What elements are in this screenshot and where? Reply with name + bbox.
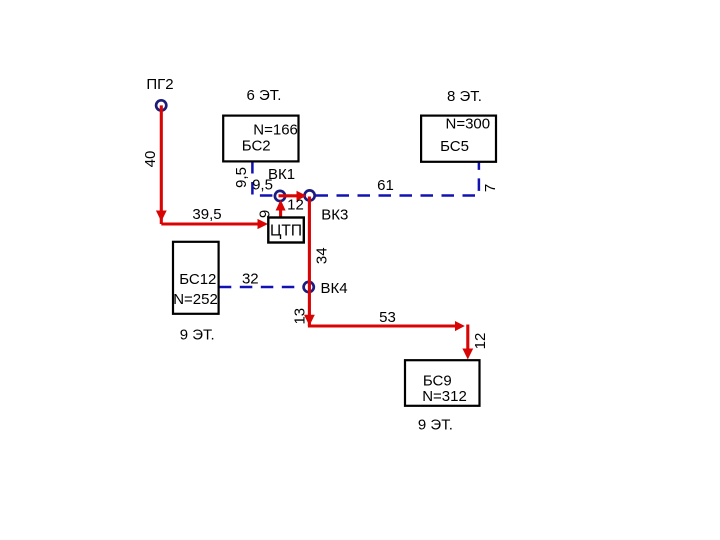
- svg-text:40: 40: [142, 151, 159, 168]
- svg-text:ВК4: ВК4: [320, 280, 347, 297]
- svg-text:39,5: 39,5: [192, 206, 221, 223]
- svg-text:12: 12: [472, 333, 489, 350]
- arrowhead down into БС9: [462, 349, 473, 360]
- svg-text:9,5: 9,5: [233, 167, 250, 188]
- arrowhead right at 53-corner: [455, 321, 465, 331]
- svg-text:N=300: N=300: [445, 116, 490, 133]
- svg-text:БС12: БС12: [179, 271, 216, 288]
- svg-text:6 ЭТ.: 6 ЭТ.: [247, 87, 282, 104]
- svg-text:БС9: БС9: [423, 372, 452, 389]
- svg-text:9 ЭТ.: 9 ЭТ.: [180, 326, 215, 343]
- node ПГ2 (source chamber circle): [156, 100, 166, 110]
- wire: blue return pipe БС12 to ВК4 (dashed): [219, 286, 305, 289]
- svg-text:53: 53: [379, 309, 396, 326]
- svg-text:61: 61: [377, 177, 394, 194]
- arrowhead up at ВК1: [276, 200, 286, 211]
- svg-text:7: 7: [482, 184, 499, 192]
- svg-text:9,5: 9,5: [252, 177, 273, 194]
- arrowhead down at ПГ2 corner: [156, 211, 167, 222]
- wire: red main ВК3 down through ВК4: [308, 197, 311, 327]
- block БС12 (building, N=252): [173, 242, 219, 314]
- svg-text:ПГ2: ПГ2: [146, 76, 173, 93]
- block ЦТП (heat point): [268, 218, 304, 243]
- svg-text:9: 9: [257, 210, 274, 218]
- wire: blue return pipe ВК3 to БС5 (dashed): [316, 161, 479, 196]
- svg-text:ЦТП: ЦТП: [270, 223, 302, 240]
- svg-text:13: 13: [291, 308, 308, 325]
- wire: red main corner to the right (53): [308, 324, 456, 327]
- svg-text:N=166: N=166: [253, 122, 298, 139]
- wire: blue return pipe БС2 to ВК1 (dashed): [252, 161, 273, 196]
- arrowhead right into ВК3: [297, 191, 307, 201]
- svg-text:N=312: N=312: [422, 388, 467, 405]
- wire: red supply main to ЦТП: [161, 222, 258, 225]
- block БС2 (building, N=166): [223, 116, 298, 162]
- svg-text:32: 32: [242, 271, 259, 288]
- svg-text:12: 12: [287, 197, 304, 214]
- svg-text:ВК3: ВК3: [321, 206, 348, 223]
- node ВК4 (chamber circle): [304, 282, 314, 292]
- wire: red pipe ВК1 to ВК3: [279, 194, 297, 197]
- wire: red supply main ПГ2 down: [160, 105, 163, 224]
- svg-text:N=252: N=252: [173, 291, 218, 308]
- node ВК1 (chamber circle): [275, 191, 285, 201]
- svg-text:8 ЭТ.: 8 ЭТ.: [447, 88, 482, 105]
- svg-text:34: 34: [313, 247, 330, 264]
- arrowhead down at 13-corner: [304, 315, 315, 326]
- block БС5 (building, N=300): [421, 116, 496, 162]
- svg-text:БС5: БС5: [440, 138, 469, 155]
- svg-text:9 ЭТ.: 9 ЭТ.: [418, 416, 453, 433]
- svg-text:БС2: БС2: [242, 138, 271, 155]
- block БС9 (building, N=312): [405, 360, 480, 406]
- wire: red drop to БС9: [466, 325, 469, 350]
- wire: red pipe ЦТП up to ВК1: [279, 210, 282, 219]
- arrowhead right into ЦТП: [258, 219, 269, 229]
- node ВК3 (chamber circle): [305, 190, 315, 200]
